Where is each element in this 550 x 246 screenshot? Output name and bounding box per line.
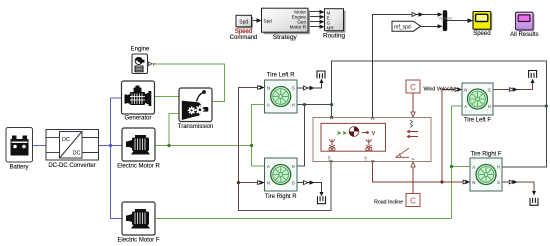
wire rear N branch to Tire Right R N (dark brown) <box>238 182 264 184</box>
svg-text:Wind Velocity: Wind Velocity <box>424 86 456 92</box>
open arrow before Tire Right R N <box>258 181 262 185</box>
svg-text:N: N <box>267 86 270 91</box>
svg-text:A: A <box>267 164 270 169</box>
wire H-net Tire Right R H riser (dark green) <box>297 105 304 166</box>
wire Strategy Motor to Routing M (dark signal) <box>308 10 321 12</box>
svg-text:Command: Command <box>230 35 258 41</box>
svg-text:Motor R: Motor R <box>290 25 307 30</box>
svg-text:All Results: All Results <box>510 32 538 38</box>
svg-text:S: S <box>488 88 491 93</box>
svg-text:Electric Motor F: Electric Motor F <box>117 238 159 244</box>
block Electric Motor R <box>122 128 155 161</box>
arrow into mux top input <box>438 12 443 16</box>
wire Electric Motor F shaft to front axle riser (green) <box>155 106 462 219</box>
svg-text:Electric Motor R: Electric Motor R <box>117 164 160 170</box>
block C constant Wind Velocity <box>406 80 420 93</box>
block Speed scope <box>473 12 492 31</box>
svg-text:MR: MR <box>327 25 335 30</box>
wire Strategy Gen to Routing G (dark signal) <box>308 21 321 23</box>
svg-text:ref_spd: ref_spd <box>394 25 411 31</box>
svg-text:A: A <box>464 104 467 109</box>
H port mark <box>330 116 333 119</box>
svg-text:H: H <box>497 164 500 169</box>
block All Results viewer <box>516 12 535 31</box>
svg-text:Battery: Battery <box>9 165 28 171</box>
svg-text:Transmission: Transmission <box>178 124 213 130</box>
filled arrow on RR S wire <box>310 180 315 184</box>
block Speed Command subsystem <box>236 15 253 28</box>
block Battery <box>6 128 33 163</box>
arrow into Tire Left F N <box>457 87 462 91</box>
wire Tire Right F S to reference fork (maroon) <box>502 182 534 194</box>
arrow down into RF fork <box>532 191 536 196</box>
block ref_spd From tag <box>392 21 421 31</box>
block Generator <box>122 81 155 114</box>
svg-text:C: C <box>410 197 416 206</box>
block Vehicle Body <box>313 116 431 162</box>
block Mux <box>443 10 447 31</box>
junction dot front N feed <box>440 180 443 183</box>
arrow into Speed scope <box>468 18 474 23</box>
arrow up into LF fork <box>531 79 535 84</box>
block Electric Motor F <box>122 202 155 235</box>
svg-text:Tire Left R: Tire Left R <box>267 72 295 78</box>
mid-line filled arrow on V signal <box>419 12 424 16</box>
block Routing subsystem <box>325 9 346 33</box>
junction dot H-net left riser <box>303 103 306 106</box>
wire Tire Left F S to reference fork (maroon) <box>493 81 533 90</box>
svg-text:H: H <box>292 103 295 108</box>
open arrow on LF S wire <box>510 88 514 92</box>
junction dot green rear axle riser <box>250 144 253 147</box>
mechanical reference fork for Tire Right F S <box>530 198 538 205</box>
svg-text:A: A <box>267 103 270 108</box>
svg-text:Spd: Spd <box>239 20 248 26</box>
NF port mark <box>371 160 374 162</box>
NR port mark <box>329 160 332 162</box>
wire ref_spd to mux (dark signal) <box>421 25 440 27</box>
open arrow before Tire Right F N <box>463 180 467 184</box>
junction dot H-net at vehicle body <box>330 103 333 106</box>
junction dot blue at DC-DC node <box>109 144 112 147</box>
svg-text:Tire Right F: Tire Right F <box>470 152 501 158</box>
block Engine <box>132 54 156 74</box>
arrow down into RR fork <box>320 192 324 197</box>
svg-text:C: C <box>410 83 416 92</box>
svg-text:Generator: Generator <box>124 116 151 122</box>
block Tire Right R <box>265 158 298 191</box>
wind W port zigzag <box>410 120 413 127</box>
open arrow up into vehicle body beta port <box>411 162 415 167</box>
arrow into Tire Right R N <box>260 180 265 184</box>
incline icon <box>396 148 410 157</box>
CG symbol <box>337 131 347 135</box>
svg-text:DC-DC Converter: DC-DC Converter <box>48 163 95 169</box>
svg-text:Routing: Routing <box>323 33 345 40</box>
block DC-DC Converter <box>46 130 99 161</box>
wire Road Incline C up to vehicle body beta port (maroon) <box>412 168 414 194</box>
wire front axle riser branch to Tire Right F port A (green) <box>452 166 471 168</box>
wire Generator to Transmission (green mechanical) <box>155 96 180 98</box>
svg-text:S: S <box>292 181 295 186</box>
svg-text:S: S <box>497 180 500 185</box>
svg-text:Strategy: Strategy <box>273 34 298 41</box>
wire Tire Right R S to reference fork (dark) <box>297 183 322 195</box>
wire vehicle body NF to front tires N (maroon) <box>373 90 462 183</box>
front axle icon <box>366 139 372 151</box>
filled arrow on RF S wire <box>512 180 517 184</box>
svg-text:N: N <box>267 181 270 186</box>
wire H-net drop into vehicle body H port (dark green) <box>331 105 333 118</box>
svg-text:N: N <box>464 88 467 93</box>
wire Tire Left R S to reference fork (dark) <box>297 81 322 88</box>
wire Wind Velocity C down to vehicle body W port (maroon) <box>412 93 414 112</box>
svg-text:Tire Left F: Tire Left F <box>464 117 491 123</box>
wind force arrows <box>407 130 418 133</box>
svg-text:F: F <box>153 62 156 67</box>
wire rear axle riser down to Tire Right R port A (green) <box>252 146 265 167</box>
mid-line open arrow on V signal <box>412 13 417 17</box>
svg-text:S: S <box>292 86 295 91</box>
svg-text:NF: NF <box>364 156 368 161</box>
svg-text:Spd: Spd <box>264 18 273 23</box>
wire Transmission lower port down to motor R shaft net (green) <box>169 114 179 146</box>
open arrow before Tire Left F N <box>455 88 459 92</box>
wire branch down to Electric Motor F (blue electrical) <box>111 146 123 219</box>
svg-text:A: A <box>472 164 475 169</box>
wire H-net Tire Left F H (dark green) <box>493 105 546 107</box>
open arrow before Tire Left R N <box>258 86 262 90</box>
wire Engine F to Transmission (green mechanical) <box>155 64 225 102</box>
open arrow down into vehicle body W port <box>411 112 415 117</box>
wire Strategy Engine to Routing E (dark signal) <box>308 16 321 18</box>
wire battery to DC-DC converter (blue electrical) <box>33 145 47 147</box>
wire H-net Tire Left R H to vehicle body H (dark green) <box>297 104 332 106</box>
svg-text:Velocity: Velocity <box>439 16 453 21</box>
wire rear axle riser up to Tire Left R port A (green) <box>252 105 265 146</box>
wire mux to Speed scope (dark signal) <box>447 20 469 22</box>
svg-text:DC: DC <box>62 137 70 143</box>
arrow into Tire Left R N <box>260 85 265 89</box>
svg-text:Engine: Engine <box>131 47 150 53</box>
open arrow on RF S wire <box>509 180 513 184</box>
block Tire Left R <box>265 80 298 113</box>
rear axle icon <box>329 139 335 151</box>
wire front N branch to Tire Right F N (maroon) <box>442 181 470 183</box>
block Strategy subsystem <box>262 8 311 34</box>
junction dot H-net right riser <box>545 104 548 107</box>
wire Strategy MotorR to Routing MR (dark signal) <box>308 26 321 28</box>
mechanical reference fork for Tire Left F S <box>529 71 537 78</box>
wire vehicle body V output up to mux (dark signal) <box>373 15 439 118</box>
V arrow inside body <box>362 131 369 134</box>
mechanical reference fork for Tire Left R S <box>317 71 325 78</box>
arrow up into LR fork <box>320 79 324 84</box>
open arrow on LR S wire <box>304 86 309 90</box>
V port mark <box>371 117 374 120</box>
mechanical reference fork for Tire Right R S <box>318 196 326 203</box>
wire Electric Motor R shaft to rear axle riser (green) <box>155 145 252 147</box>
junction dot green transmission/motor R node <box>167 144 170 147</box>
svg-text:Speed: Speed <box>473 31 490 37</box>
engine output port F <box>149 62 153 66</box>
arrow into Tire Right F N <box>465 180 470 184</box>
junction dot green front axle riser <box>450 165 453 168</box>
svg-text:N: N <box>472 180 475 185</box>
wire branch up to Generator (blue electrical) <box>111 98 122 146</box>
block Tire Right F <box>470 158 502 191</box>
junction dot rear N feed <box>237 181 240 184</box>
svg-text:NR: NR <box>328 155 332 160</box>
wire Speed Command to Strategy (dark signal) <box>252 20 259 22</box>
block Tire Left F <box>462 83 493 115</box>
wire H-net big loop to front tires (dark green) <box>332 61 547 106</box>
block Transmission <box>179 88 212 122</box>
svg-text:DC: DC <box>73 151 81 157</box>
svg-text:H: H <box>292 164 295 169</box>
svg-text:Tire Right R: Tire Right R <box>265 194 297 200</box>
arrows into Routing <box>320 10 325 14</box>
open arrow on RR S wire <box>304 181 309 185</box>
wire vehicle body NR to rear tires N (dark brown) <box>238 88 331 211</box>
arrow into Strategy <box>257 18 262 22</box>
svg-text:H: H <box>488 104 491 109</box>
filled arrow on LF S wire <box>513 87 518 91</box>
svg-text:Road Incline: Road Incline <box>374 199 403 205</box>
wire H-net down to Tire Right F H (dark green) <box>502 106 546 167</box>
wire DC-DC to Electric Motor R (blue electrical) <box>99 145 123 147</box>
svg-text:V: V <box>372 131 376 137</box>
arrowheads <box>257 10 537 197</box>
block C constant Road Incline <box>406 194 420 207</box>
arrow into mux bottom input <box>438 24 443 28</box>
filled arrow on LR S wire <box>310 86 315 90</box>
